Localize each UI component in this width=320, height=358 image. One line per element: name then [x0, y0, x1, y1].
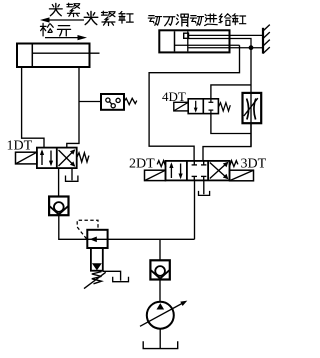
left square parallel arrows — [41, 151, 43, 165]
right solenoid of valve 2DT/3DT — [230, 170, 254, 181]
valve 1DT body (4/2 solenoid valve) — [37, 148, 77, 169]
wire: clamping cylinder left pipe to valve 1DT port A — [22, 67, 44, 148]
junction node at feed cylinder rod — [249, 45, 254, 50]
wire: valve 2DT/3DT port A up and left — [149, 45, 239, 161]
spring of valve 1DT — [77, 153, 89, 162]
wire: bypass frame bottom — [211, 114, 251, 134]
feed cylinder (动力滑动进给缸) — [159, 30, 229, 52]
label 动力滑动进给缸 (power sliding feed cylinder) — [148, 16, 161, 26]
left square parallel arrows — [170, 164, 172, 178]
check valve V2 — [150, 260, 169, 279]
left spring of valve 2DT/3DT — [157, 161, 166, 167]
reducing valve adjustment spring — [92, 272, 102, 284]
wire: junction down through throttle valve — [250, 48, 252, 147]
middle square blocked ports — [193, 161, 195, 165]
wire: valve 1DT port P down to check valve V1 — [58, 168, 60, 196]
release direction arrow (right) — [45, 35, 87, 40]
spring of valve 4DT — [218, 103, 230, 111]
solenoid of valve 1DT — [16, 152, 37, 164]
wire: valve 2DT/3DT port B up to throttle drop — [203, 123, 251, 161]
wall anchor with hatches — [263, 25, 270, 54]
clamp direction arrow (left) — [40, 17, 84, 22]
wire: pump to tank — [159, 328, 161, 348]
wire: clamping cylinder right pipe to valve 1DT port B — [67, 67, 79, 148]
wire: check valve V1 to reducing valve — [59, 215, 88, 239]
throttle (flow control) valve — [243, 93, 262, 123]
label 夹紧缸 (clamping cylinder) — [84, 12, 98, 25]
right square crossed arrows — [59, 150, 75, 166]
wire: P riser to valve 2DT/3DT port P — [194, 180, 196, 239]
tank under valve 2DT/3DT port T — [203, 180, 205, 194]
svg-text:3DT: 3DT — [241, 157, 267, 172]
solenoid of valve 4DT — [174, 102, 188, 111]
wire: rod line D through junction to wall — [189, 47, 264, 49]
svg-text:2DT: 2DT — [129, 157, 155, 172]
left solenoid of valve 2DT/3DT — [145, 170, 166, 180]
check valve V1 — [49, 197, 68, 216]
right square crossed arrows — [210, 163, 228, 179]
wire: branch to pressure relay — [79, 101, 101, 103]
drain line of reducing valve — [103, 271, 121, 280]
pilot line (dashed) of reducing valve — [77, 220, 98, 239]
tank for reducing valve drain — [113, 277, 129, 282]
wire: main pressure line from reducing valve to P riser — [108, 238, 195, 240]
reducing valve adjustment arrow — [84, 272, 106, 288]
valve 4DT body (2/2 bypass valve) — [188, 99, 218, 114]
wire: bypass frame top — [211, 85, 251, 99]
label 夹紧 (clamp) — [49, 3, 62, 15]
wire: inner line B down to junction — [189, 39, 252, 48]
tank under pump — [143, 341, 178, 348]
reducing valve spring chamber — [91, 248, 103, 271]
clamping cylinder (夹紧缸) — [17, 44, 100, 68]
svg-text:1DT: 1DT — [7, 139, 33, 154]
left square through arrow — [195, 101, 197, 111]
pump (variable displacement) — [147, 302, 174, 329]
label 松开 (release) — [40, 23, 53, 36]
pressure relay (压力继电器) — [101, 94, 137, 110]
wire: line C from piston to A-branch riser — [175, 44, 240, 46]
reducing valve body — [87, 230, 107, 248]
wire: rod line A to wall — [189, 34, 264, 36]
right spring of valve 2DT/3DT — [229, 161, 238, 167]
tank under valve 1DT port T — [71, 168, 73, 180]
valve 2DT/3DT body (4/3 solenoid valve) — [166, 161, 230, 181]
wire: pump riser — [159, 239, 161, 261]
right square blocked ports — [210, 99, 212, 103]
